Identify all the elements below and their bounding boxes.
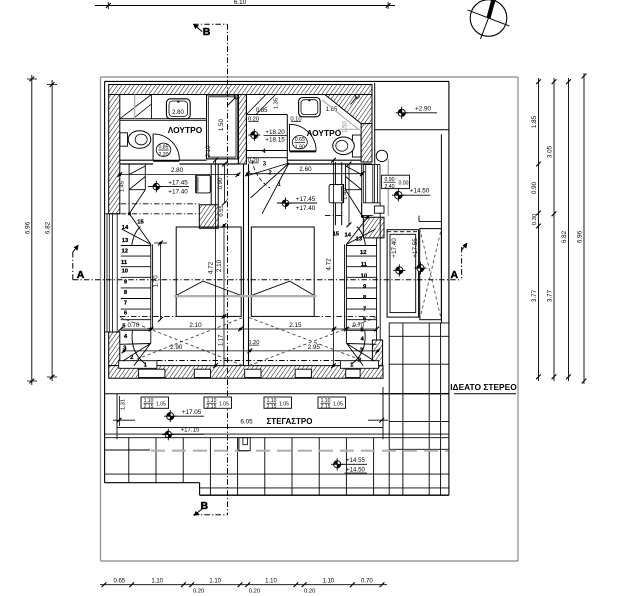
svg-text:1.17: 1.17: [219, 334, 225, 346]
svg-text:1.10: 1.10: [322, 579, 334, 585]
svg-text:+2.90: +2.90: [415, 105, 431, 112]
svg-text:2.15: 2.15: [289, 322, 302, 329]
svg-text:12: 12: [121, 248, 127, 254]
svg-text:0.30: 0.30: [532, 214, 538, 225]
svg-text:2.20: 2.20: [158, 152, 168, 158]
svg-text:13: 13: [356, 237, 363, 243]
svg-text:0.20: 0.20: [193, 588, 204, 594]
svg-text:2.40: 2.40: [384, 184, 394, 190]
svg-text:6.05: 6.05: [240, 418, 253, 425]
svg-text:11: 11: [121, 260, 128, 266]
svg-text:2.60: 2.60: [299, 166, 312, 173]
svg-text:+14.55: +14.55: [346, 457, 365, 464]
svg-text:A: A: [451, 269, 459, 281]
svg-text:2.10: 2.10: [206, 145, 212, 157]
svg-text:15: 15: [333, 232, 340, 238]
svg-text:1.05: 1.05: [219, 402, 229, 408]
svg-text:14: 14: [122, 225, 129, 231]
svg-text:0.85: 0.85: [256, 108, 268, 114]
svg-text:0.85: 0.85: [158, 144, 168, 150]
svg-text:2: 2: [358, 358, 361, 364]
svg-text:+17.05: +17.05: [182, 409, 202, 416]
svg-text:15: 15: [137, 220, 144, 226]
svg-text:2.95: 2.95: [308, 344, 321, 351]
svg-text:1.50: 1.50: [343, 121, 349, 133]
svg-text:0.55: 0.55: [219, 205, 225, 216]
svg-text:4.72: 4.72: [207, 261, 214, 274]
svg-text:2.15: 2.15: [267, 404, 277, 410]
svg-text:A: A: [77, 269, 85, 281]
svg-text:1.70: 1.70: [153, 275, 160, 288]
svg-text:3.05: 3.05: [546, 145, 553, 158]
svg-text:1.05: 1.05: [333, 402, 343, 408]
svg-text:+18.15: +18.15: [265, 137, 285, 144]
svg-text:+17.45: +17.45: [168, 179, 188, 186]
svg-text:2.10: 2.10: [216, 259, 223, 272]
svg-text:11: 11: [361, 262, 368, 268]
svg-text:7: 7: [363, 307, 366, 313]
svg-text:7: 7: [124, 300, 127, 306]
svg-text:13: 13: [122, 238, 129, 244]
svg-text:2.90: 2.90: [170, 344, 183, 351]
svg-text:1.50: 1.50: [218, 118, 225, 131]
svg-text:14: 14: [344, 233, 351, 239]
svg-text:1.90: 1.90: [295, 145, 305, 151]
svg-text:6.82: 6.82: [561, 230, 568, 243]
svg-text:2.10: 2.10: [189, 322, 202, 329]
svg-text:1.05: 1.05: [156, 402, 166, 408]
svg-text:0.65: 0.65: [113, 579, 125, 585]
svg-text:2.80: 2.80: [172, 110, 184, 116]
svg-text:B: B: [201, 500, 209, 512]
svg-text:+14.50: +14.50: [410, 187, 430, 194]
svg-text:1.10: 1.10: [265, 579, 277, 585]
svg-text:2.80: 2.80: [171, 167, 184, 174]
svg-text:1.35: 1.35: [274, 98, 280, 109]
svg-text:6.96: 6.96: [24, 221, 31, 234]
svg-text:10: 10: [122, 269, 128, 275]
svg-text:+14.50: +14.50: [346, 466, 365, 473]
svg-text:1.31: 1.31: [120, 399, 126, 410]
svg-text:1.05: 1.05: [279, 402, 289, 408]
svg-text:ΛΟΥΤΡΟ: ΛΟΥΤΡΟ: [168, 125, 203, 135]
svg-text:+17.40: +17.40: [168, 189, 188, 196]
svg-text:+17.15: +17.15: [181, 427, 200, 434]
svg-text:0.00: 0.00: [398, 181, 408, 187]
svg-text:3.77: 3.77: [546, 289, 553, 302]
svg-text:2.15: 2.15: [144, 404, 154, 410]
svg-text:6.82: 6.82: [45, 221, 52, 234]
svg-text:+17.40: +17.40: [391, 238, 398, 258]
svg-text:+17.40: +17.40: [296, 205, 316, 212]
svg-text:1.45: 1.45: [119, 181, 125, 192]
svg-text:1.10: 1.10: [209, 579, 221, 585]
svg-text:3.77: 3.77: [531, 289, 538, 302]
svg-text:6.96: 6.96: [576, 230, 583, 243]
svg-text:2.15: 2.15: [321, 404, 331, 410]
svg-text:0.20: 0.20: [249, 588, 260, 594]
svg-text:+18.20: +18.20: [265, 129, 285, 136]
svg-text:0.20: 0.20: [304, 588, 315, 594]
svg-text:4.72: 4.72: [325, 258, 332, 271]
svg-text:+17.45: +17.45: [296, 196, 316, 203]
svg-text:ΣΤΕΓΑΣΤΡΟ: ΣΤΕΓΑΣΤΡΟ: [267, 417, 313, 426]
svg-text:ΙΔΕΑΤΟ ΣΤΕΡΕΟ: ΙΔΕΑΤΟ ΣΤΕΡΕΟ: [450, 382, 517, 392]
svg-text:1.85: 1.85: [531, 115, 538, 128]
svg-text:0.90: 0.90: [531, 181, 538, 194]
svg-text:2: 2: [130, 355, 133, 361]
svg-text:+17.55: +17.55: [412, 238, 419, 258]
svg-text:6.10: 6.10: [234, 0, 247, 6]
svg-text:10: 10: [361, 273, 367, 279]
svg-text:12: 12: [360, 250, 366, 256]
svg-text:B: B: [203, 26, 211, 38]
svg-text:2.15: 2.15: [207, 404, 217, 410]
svg-text:0.70: 0.70: [361, 579, 373, 585]
svg-text:0.65: 0.65: [295, 137, 305, 143]
svg-text:1.10: 1.10: [151, 579, 163, 585]
svg-text:ΛΟΥΤΡΟ: ΛΟΥΤΡΟ: [307, 128, 342, 138]
